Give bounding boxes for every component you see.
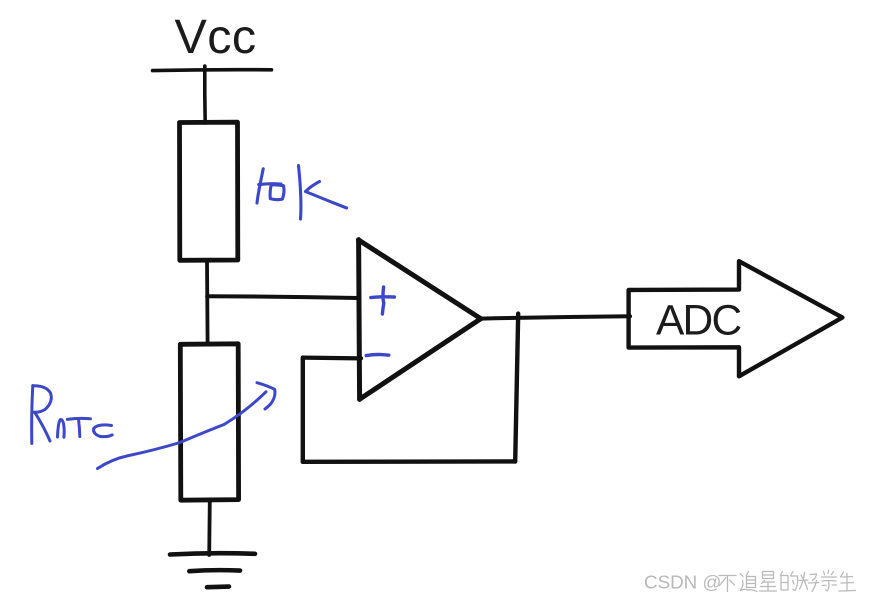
power rail Vcc — [153, 68, 272, 73]
wire feedback right vertical (output to - loop) — [515, 314, 518, 462]
label ADC — [656, 298, 741, 345]
op-amp + input label — [371, 287, 395, 314]
学 — [822, 571, 837, 592]
生 — [839, 572, 856, 591]
ground — [170, 553, 255, 587]
svg-text:Vcc: Vcc — [175, 10, 257, 64]
wire feedback bottom horizontal — [303, 459, 515, 464]
op-amp U1 — [359, 240, 481, 400]
op-amp - input label — [366, 354, 389, 355]
svg-text:CSDN @: CSDN @ — [644, 572, 722, 593]
wire op-amp output to ADC — [481, 316, 631, 318]
wire R2 to ground — [207, 500, 211, 555]
wire Vcc rail to R1 — [203, 66, 207, 123]
svg-text:ADC: ADC — [656, 298, 741, 345]
wire feedback left vertical — [301, 358, 305, 462]
net label Vcc — [175, 10, 257, 64]
ADC arrow symbol — [629, 261, 843, 376]
node A: wire divider tap to op-amp + input — [207, 296, 358, 298]
wire R1 to node A — [205, 261, 209, 345]
追 — [740, 572, 757, 592]
好 — [799, 573, 819, 592]
星 — [760, 572, 777, 592]
的 — [781, 572, 798, 591]
value label 10K (handwritten blue) — [257, 166, 347, 220]
resistor R1 (10K body) — [180, 122, 238, 260]
watermark CSDN @不追星的好学生 — [644, 571, 856, 593]
wire feedback stub to - input — [303, 356, 361, 361]
label R_NTC (handwritten blue) — [32, 386, 112, 444]
NTC variable-marker arrow (blue) — [98, 383, 275, 469]
resistor R2 (NTC body) — [180, 344, 238, 500]
不 — [719, 576, 736, 592]
